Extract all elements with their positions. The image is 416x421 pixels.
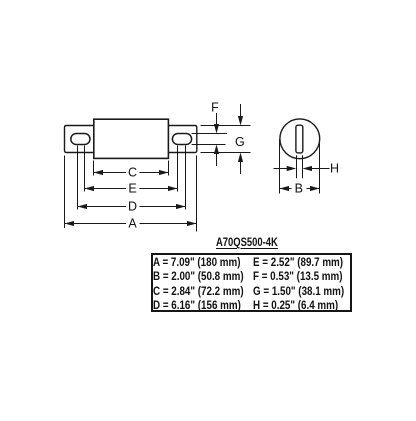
extension lines right of tab (F and G) [192,126,251,153]
dimension table [151,253,352,312]
right mounting tab [168,126,196,153]
dimension G [238,104,243,174]
dimension A [65,221,197,226]
extension lines below end view [280,139,320,194]
dimension F [214,113,219,166]
svg-text:B: B [295,182,303,196]
svg-text:D: D [128,200,137,214]
svg-text:E: E [128,182,136,196]
svg-text:F: F [211,101,219,115]
svg-text:C: C [128,166,137,180]
svg-text:G: G [235,135,245,149]
left mounting tab [65,126,94,153]
end view circle [280,119,320,159]
svg-text:H: H [330,162,339,176]
extension lines below front view [65,146,197,232]
end view slot [296,125,303,153]
svg-text:A: A [128,217,137,231]
fuse body (front view) [94,119,169,158]
dimension D [78,204,186,209]
dimension E [85,186,178,191]
dimension B [280,186,320,191]
part number label [216,235,278,249]
left tab slot [71,134,90,145]
dimension C [94,170,169,175]
right tab slot [172,134,191,145]
dimension H [274,166,330,171]
